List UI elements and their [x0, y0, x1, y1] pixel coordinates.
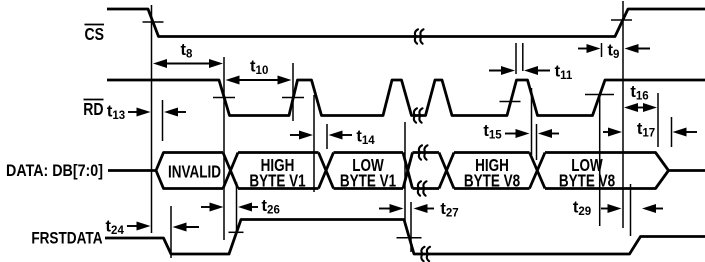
t14 left arrow	[290, 131, 313, 140]
DATA lead-in wire	[108, 169, 156, 172]
FRSTDATA rising-edge tick	[229, 231, 244, 233]
guide bar t16 right bound	[657, 93, 659, 147]
FRSTDATA waveform	[105, 220, 705, 255]
guide bar t27 left bound	[404, 122, 406, 221]
guide line at RD 2nd falling edge	[313, 95, 315, 192]
t9 right arrow	[625, 44, 651, 53]
t29 right arrow	[642, 204, 663, 213]
t13 right arrow	[164, 108, 186, 117]
guide bar t11 right bound	[522, 43, 524, 71]
RD rising-edge tick (after t10)	[282, 97, 304, 99]
t26 left arrow	[201, 203, 224, 212]
svg-text:CS: CS	[85, 24, 105, 44]
RD final rising-edge tick	[585, 94, 614, 96]
bus value LOW BYTE V1	[340, 156, 396, 191]
t9 left arrow	[578, 44, 601, 53]
CS rising-edge crossing tick	[611, 19, 632, 21]
guide bar at FRSTDATA final rise (t29)	[630, 184, 632, 236]
svg-text:BYTE V8: BYTE V8	[559, 172, 615, 191]
RD rising-edge tick (t11 pulse)	[500, 101, 521, 103]
t8 span arrow	[153, 59, 223, 68]
guide bar t27 right bound	[410, 202, 412, 252]
CS waveform	[107, 9, 705, 37]
FRSTDATA break squiggle	[421, 247, 430, 261]
t15 left arrow	[505, 129, 530, 138]
bus value HIGH BYTE V8	[464, 156, 520, 191]
t16 span arrow	[624, 103, 657, 112]
guide bar t26 left bound	[236, 182, 238, 234]
guide bar t11 left bound	[515, 43, 517, 74]
RD break squiggle	[414, 108, 423, 122]
CS break squiggle	[415, 29, 424, 43]
guide line at RD 1st falling edge	[223, 57, 225, 240]
CS falling-edge crossing tick	[143, 21, 164, 23]
guide bar t15 left bound crossing RD fall	[531, 88, 533, 155]
signal label RD with overline	[83, 99, 103, 119]
guide bar at FRSTDATA fall (t24)	[170, 206, 172, 258]
t27 left arrow	[379, 204, 404, 213]
t10 span arrow	[226, 76, 292, 85]
guide line at RD final rising edge	[599, 97, 601, 226]
svg-text:BYTE V1: BYTE V1	[249, 172, 305, 191]
bus value LOW BYTE V8	[559, 156, 615, 191]
guide bar t15 right bound	[536, 124, 538, 160]
t27 right arrow	[414, 204, 435, 213]
DATA trailing wire	[669, 169, 705, 172]
FRSTDATA falling-edge tick	[397, 237, 422, 239]
guide bar t14 right bound	[326, 124, 328, 149]
t15 right arrow	[538, 129, 559, 138]
bus value HIGH BYTE V1	[249, 156, 305, 191]
svg-text:RD: RD	[83, 99, 103, 119]
RD waveform	[107, 80, 705, 116]
guide line at CS rising edge	[622, 1, 624, 228]
t13 left arrow	[128, 108, 151, 117]
DATA bottom-edge break squiggle	[418, 181, 427, 195]
svg-text:FRSTDATA: FRSTDATA	[31, 229, 102, 248]
RD 1st falling-edge tick	[213, 97, 235, 99]
guide bar t13 right bound	[162, 100, 164, 141]
DATA top-edge break squiggle	[419, 145, 428, 159]
svg-text:INVALID: INVALID	[168, 163, 221, 182]
svg-text:DATA: DB[7:0]: DATA: DB[7:0]	[6, 162, 103, 180]
guide line at CS falling edge	[151, 5, 153, 233]
signal label CS with overline	[85, 24, 105, 44]
t17 right arrow	[673, 128, 698, 137]
guide bar t9 left bound	[601, 43, 603, 57]
t29 left arrow	[601, 204, 622, 213]
svg-text:BYTE V1: BYTE V1	[340, 172, 396, 191]
t24 arrow to CS edge	[127, 222, 151, 231]
t11 left arrow	[489, 66, 515, 75]
t24 arrow to FRSTDATA edge	[173, 223, 200, 232]
guide bar t17 right bound	[671, 117, 673, 147]
svg-text:BYTE V8: BYTE V8	[464, 172, 520, 191]
guide bar at RD rising edge (t10 right)	[292, 63, 294, 121]
t14 right arrow	[329, 131, 353, 140]
t11 right arrow	[524, 66, 550, 75]
t17 left arrow	[603, 128, 622, 137]
t26 right arrow	[238, 203, 258, 212]
DATA bus outline with crossovers	[156, 153, 669, 189]
